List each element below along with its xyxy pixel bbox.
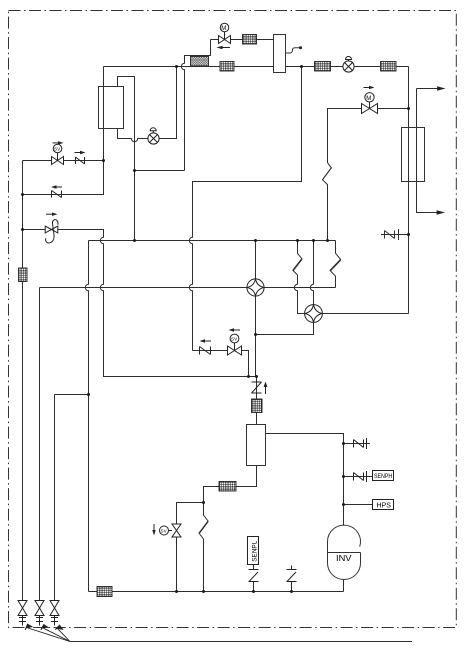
svg-text:HPS: HPS [377, 503, 392, 510]
svg-text:SV: SV [161, 529, 168, 534]
svg-text:M: M [221, 26, 226, 32]
svg-text:SV: SV [231, 337, 238, 342]
svg-text:SENPL: SENPL [251, 540, 258, 561]
svg-text:M: M [366, 96, 371, 102]
svg-text:SENPH: SENPH [374, 473, 392, 480]
svg-text:SV: SV [54, 147, 61, 152]
svg-text:INV: INV [336, 554, 352, 563]
